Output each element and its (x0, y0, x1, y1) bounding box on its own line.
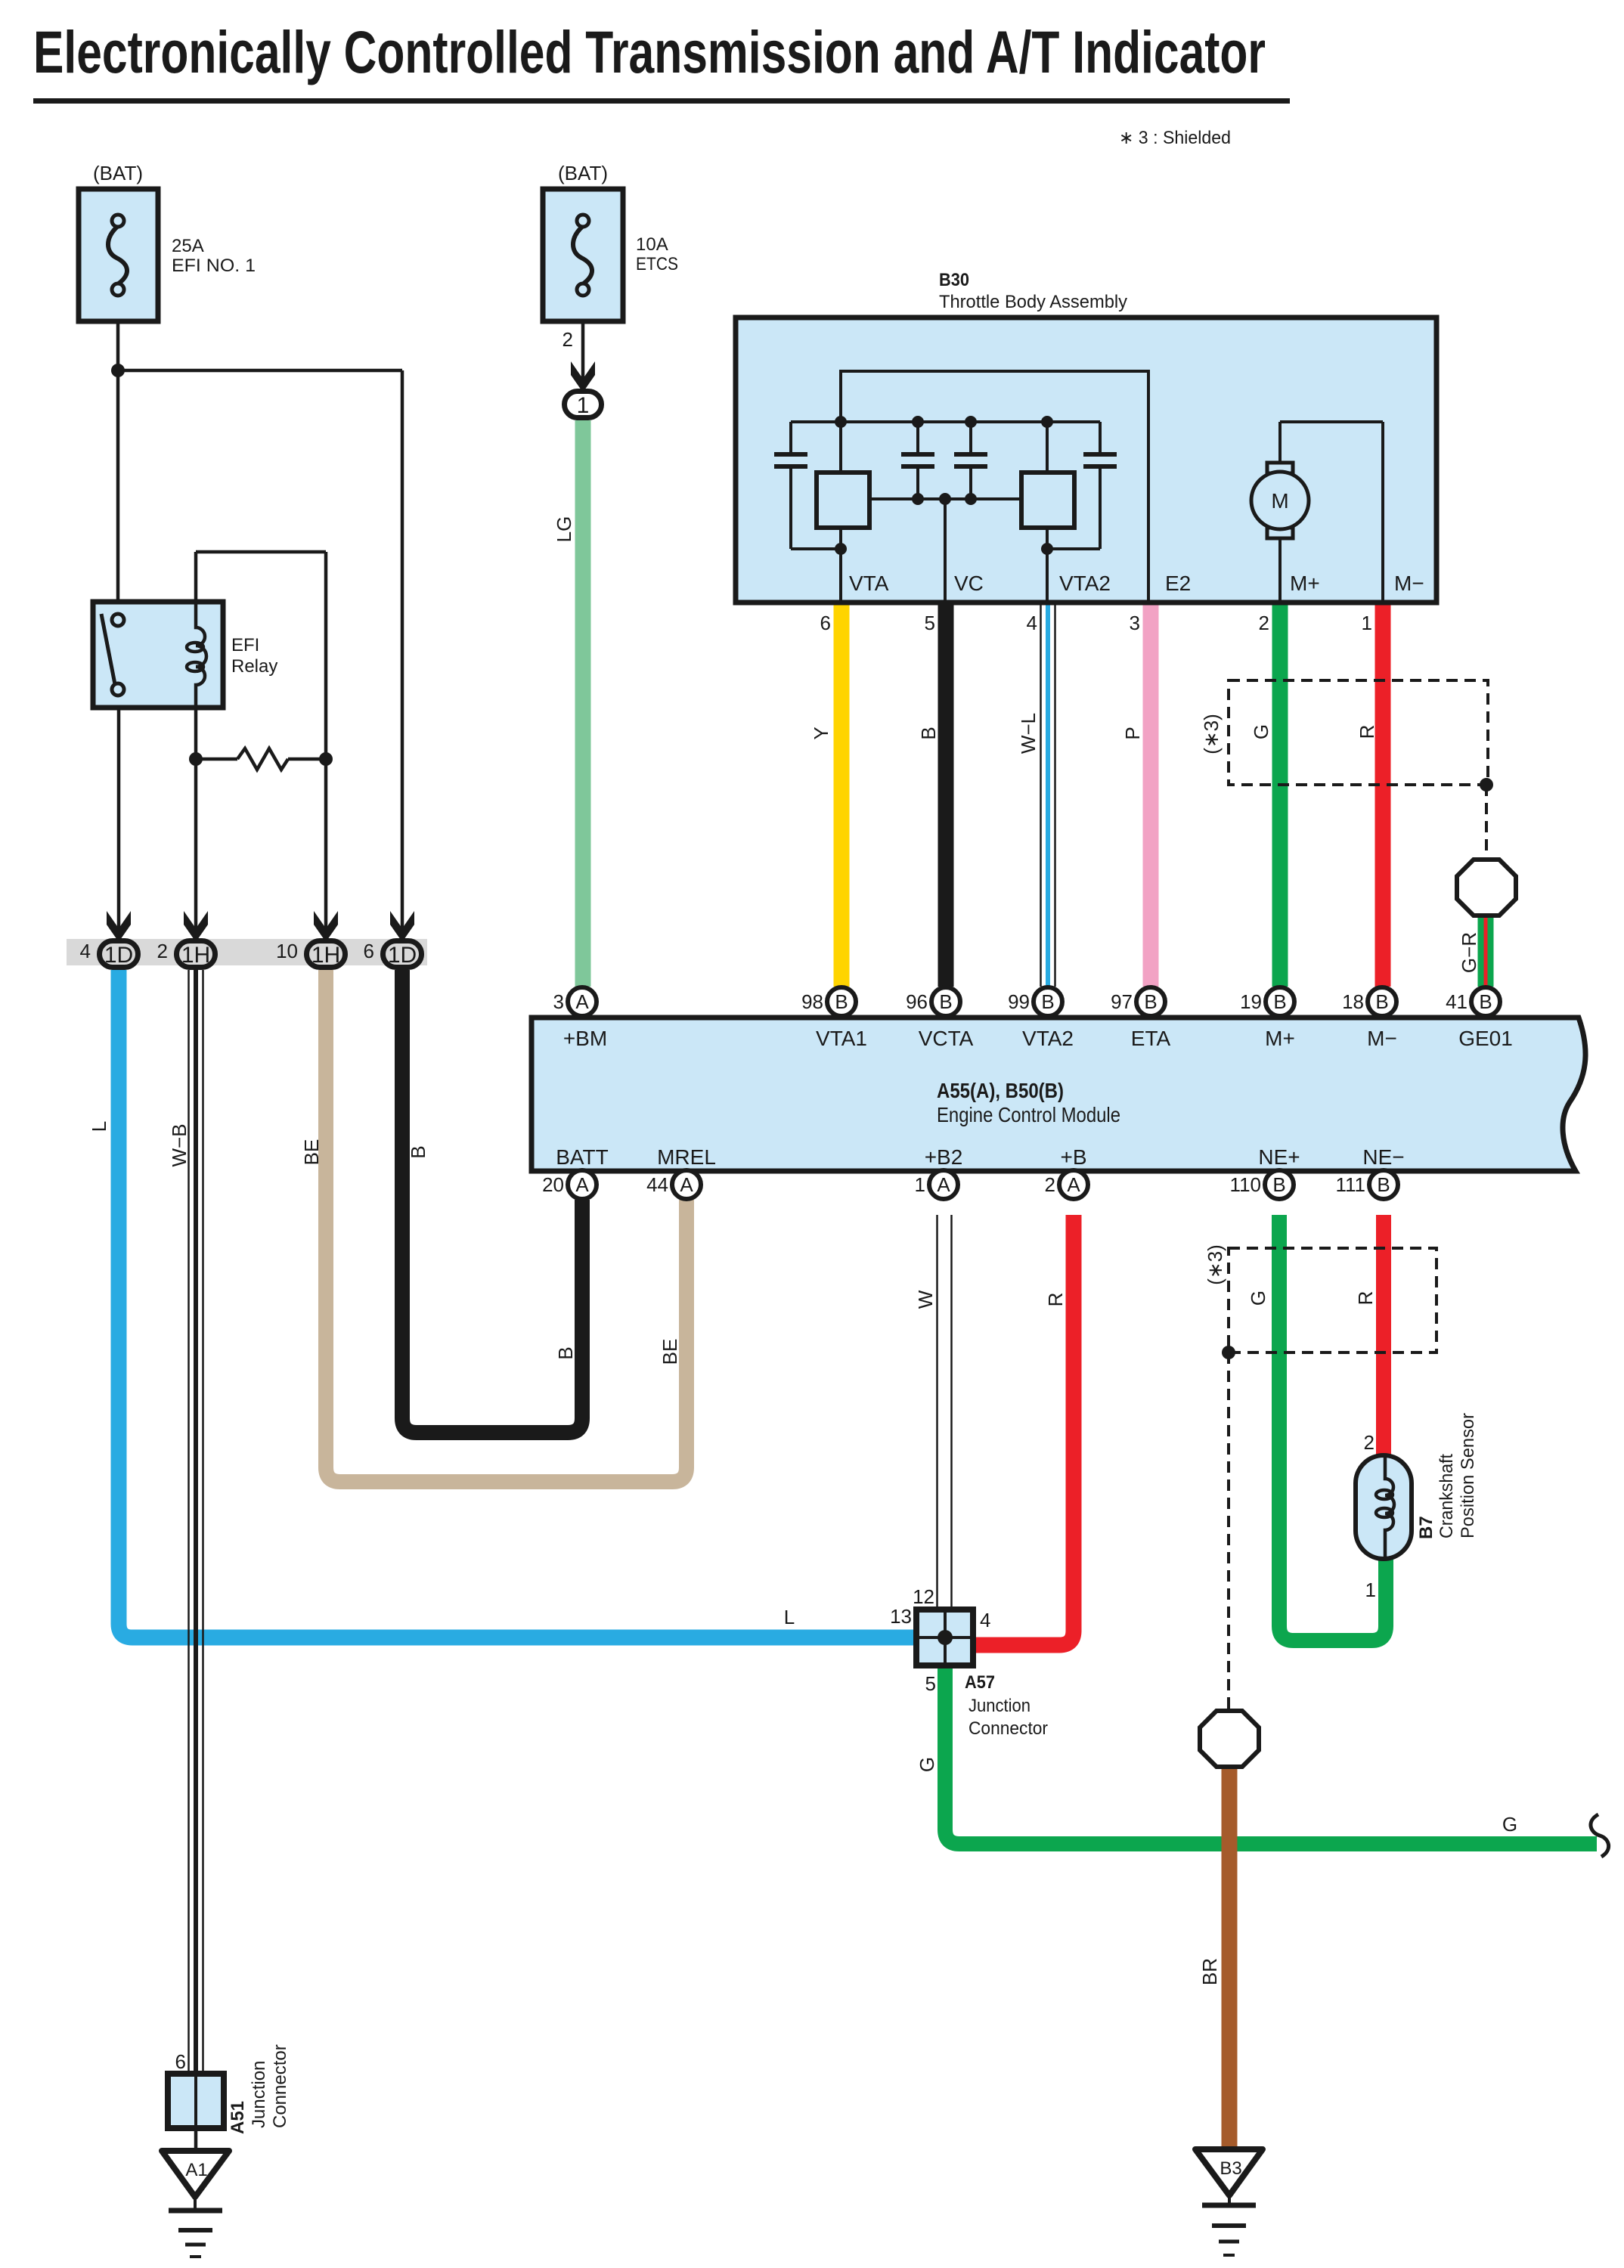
svg-text:W−B: W−B (168, 1123, 191, 1167)
svg-text:2: 2 (157, 940, 168, 962)
svg-text:W: W (914, 1290, 937, 1309)
svg-text:A51: A51 (228, 2101, 248, 2134)
svg-text:Position Sensor: Position Sensor (1458, 1413, 1478, 1538)
svg-text:M+: M+ (1265, 1027, 1295, 1050)
svg-text:NE+: NE+ (1258, 1145, 1300, 1169)
svg-text:+B2: +B2 (925, 1145, 963, 1169)
svg-text:B: B (407, 1145, 429, 1158)
svg-text:6: 6 (364, 940, 374, 962)
svg-text:L: L (784, 1606, 795, 1628)
svg-text:1H: 1H (181, 943, 210, 968)
svg-text:B: B (1144, 990, 1157, 1013)
svg-text:MREL: MREL (657, 1145, 716, 1169)
svg-text:G: G (1247, 1290, 1269, 1306)
svg-text:M+: M+ (1290, 572, 1320, 595)
svg-text:(BAT): (BAT) (93, 162, 143, 184)
svg-text:G: G (1250, 724, 1272, 739)
svg-text:R: R (1044, 1293, 1067, 1307)
svg-text:LG: LG (553, 516, 575, 543)
svg-text:(BAT): (BAT) (558, 162, 608, 184)
svg-text:VTA1: VTA1 (816, 1027, 867, 1050)
svg-text:2: 2 (563, 328, 573, 351)
svg-text:BE: BE (659, 1339, 681, 1365)
svg-text:96: 96 (906, 990, 928, 1013)
svg-text:A57: A57 (965, 1672, 995, 1693)
svg-text:98: 98 (801, 990, 823, 1013)
svg-text:Junction: Junction (249, 2061, 269, 2128)
svg-text:Connector: Connector (969, 1718, 1048, 1739)
svg-text:1D: 1D (104, 943, 133, 968)
svg-text:B7: B7 (1416, 1516, 1436, 1539)
svg-text:P: P (1121, 727, 1144, 739)
svg-text:A: A (575, 1173, 589, 1196)
svg-text:Engine Control Module: Engine Control Module (937, 1103, 1120, 1126)
svg-text:A55(A), B50(B): A55(A), B50(B) (937, 1079, 1064, 1102)
svg-text:10A: 10A (636, 234, 668, 255)
svg-text:110: 110 (1230, 1173, 1261, 1196)
svg-text:R: R (1356, 725, 1378, 739)
svg-text:2: 2 (1364, 1431, 1375, 1454)
svg-text:5: 5 (925, 612, 935, 634)
svg-text:4: 4 (980, 1609, 990, 1631)
svg-text:B: B (554, 1346, 577, 1359)
svg-text:44: 44 (646, 1173, 668, 1196)
svg-text:G−R: G−R (1458, 932, 1480, 973)
svg-text:BE: BE (300, 1139, 323, 1166)
svg-text:Y: Y (810, 727, 832, 739)
svg-text:Throttle Body Assembly: Throttle Body Assembly (939, 292, 1127, 312)
svg-text:97: 97 (1111, 990, 1133, 1013)
svg-text:20: 20 (542, 1173, 564, 1196)
svg-text:3: 3 (1130, 612, 1140, 634)
svg-text:B: B (1273, 990, 1286, 1013)
svg-text:R: R (1354, 1291, 1377, 1306)
svg-text:B3: B3 (1220, 2158, 1241, 2179)
svg-text:B: B (835, 990, 848, 1013)
svg-text:10: 10 (276, 940, 298, 962)
svg-text:G: G (916, 1757, 938, 1772)
svg-text:B: B (917, 727, 940, 739)
svg-text:VCTA: VCTA (919, 1027, 974, 1050)
svg-text:19: 19 (1240, 990, 1262, 1013)
svg-text:M−: M− (1367, 1027, 1397, 1050)
svg-text:EFI: EFI (231, 635, 259, 655)
svg-text:G: G (1502, 1813, 1517, 1836)
svg-text:B: B (1375, 990, 1388, 1013)
svg-text:A: A (680, 1173, 693, 1196)
svg-text:111: 111 (1335, 1173, 1365, 1196)
svg-text:5: 5 (925, 1672, 936, 1695)
svg-text:41: 41 (1446, 990, 1467, 1013)
svg-text:18: 18 (1342, 990, 1364, 1013)
svg-text:B30: B30 (939, 270, 969, 290)
svg-text:2: 2 (1045, 1173, 1055, 1196)
svg-text:B: B (1041, 990, 1054, 1013)
svg-text:NE−: NE− (1362, 1145, 1404, 1169)
svg-text:A: A (575, 990, 589, 1013)
svg-text:M: M (1271, 489, 1288, 513)
svg-text:Junction: Junction (969, 1696, 1030, 1716)
svg-text:M−: M− (1394, 572, 1424, 595)
svg-text:A1: A1 (185, 2160, 207, 2180)
svg-text:B: B (1479, 990, 1492, 1013)
svg-text:L: L (88, 1121, 110, 1132)
svg-text:∗ 3 : Shielded: ∗ 3 : Shielded (1119, 128, 1231, 148)
svg-text:BATT: BATT (556, 1145, 608, 1169)
svg-text:1: 1 (1362, 612, 1372, 634)
svg-text:Electronically Controlled Tran: Electronically Controlled Transmission a… (33, 18, 1266, 85)
svg-text:B: B (1377, 1173, 1390, 1196)
svg-text:6: 6 (175, 2050, 186, 2073)
svg-text:VTA: VTA (849, 572, 889, 595)
svg-text:Crankshaft: Crankshaft (1436, 1454, 1457, 1538)
svg-text:13: 13 (890, 1605, 912, 1628)
svg-text:+BM: +BM (563, 1027, 607, 1050)
svg-text:1H: 1H (311, 943, 340, 968)
svg-text:GE01: GE01 (1458, 1027, 1513, 1050)
svg-text:A: A (937, 1173, 950, 1196)
svg-text:B: B (939, 990, 952, 1013)
svg-text:VTA2: VTA2 (1059, 572, 1111, 595)
svg-text:ETCS: ETCS (636, 254, 678, 274)
svg-text:W−L: W−L (1017, 713, 1040, 754)
svg-text:1: 1 (1365, 1579, 1376, 1601)
svg-text:25A: 25A (172, 236, 204, 256)
svg-text:4: 4 (80, 940, 91, 962)
svg-text:3: 3 (553, 990, 564, 1013)
svg-text:6: 6 (820, 612, 831, 634)
svg-text:4: 4 (1027, 612, 1037, 634)
svg-text:EFI NO. 1: EFI NO. 1 (172, 256, 256, 276)
svg-text:B: B (1272, 1173, 1285, 1196)
svg-text:VC: VC (954, 572, 984, 595)
svg-text:ETA: ETA (1131, 1027, 1171, 1050)
svg-text:A: A (1067, 1173, 1080, 1196)
svg-text:(∗3): (∗3) (1204, 1244, 1226, 1285)
svg-text:VTA2: VTA2 (1022, 1027, 1074, 1050)
svg-text:12: 12 (913, 1585, 934, 1608)
svg-text:1: 1 (577, 393, 590, 418)
svg-text:Connector: Connector (270, 2044, 290, 2128)
svg-text:+B: +B (1060, 1145, 1086, 1169)
svg-text:Relay: Relay (231, 656, 277, 677)
svg-text:1D: 1D (388, 943, 417, 968)
svg-text:2: 2 (1259, 612, 1269, 634)
svg-text:1: 1 (915, 1173, 925, 1196)
svg-text:99: 99 (1008, 990, 1030, 1013)
svg-text:(∗3): (∗3) (1200, 714, 1223, 754)
svg-text:BR: BR (1198, 1958, 1221, 1985)
svg-text:E2: E2 (1165, 572, 1191, 595)
